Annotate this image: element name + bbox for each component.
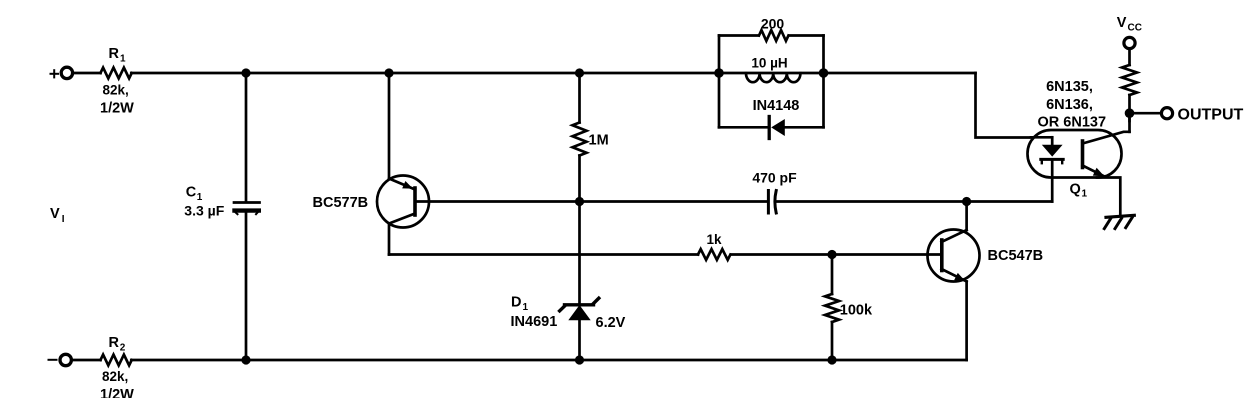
wire parallel network right branch — [822, 36, 825, 128]
svg-text:BC577B: BC577B — [313, 195, 369, 211]
svg-text:V: V — [1117, 15, 1127, 31]
wire IN4148 left — [719, 126, 768, 129]
svg-text:IN4148: IN4148 — [753, 98, 800, 114]
optocoupler body 6N135 — [1028, 130, 1122, 178]
label VCC — [1117, 15, 1142, 33]
wire BC577B base to node — [417, 200, 580, 203]
terminal OUTPUT — [1161, 108, 1172, 119]
svg-text:1k: 1k — [706, 232, 722, 247]
wire output node to terminal — [1130, 112, 1162, 115]
wire node to D1 — [578, 202, 581, 304]
ground — [1104, 215, 1134, 228]
svg-text:1/2W: 1/2W — [100, 101, 134, 117]
node 1M base 470pF — [575, 197, 584, 206]
transistor BC547B — [928, 230, 980, 282]
svg-text:CC: CC — [1128, 23, 1142, 34]
wire BC547B emitter to bottom rail — [965, 282, 968, 361]
wire node to BC547B base — [832, 253, 940, 256]
wire node to opto LED cathode — [967, 200, 1053, 203]
node parallel network right — [819, 68, 829, 78]
label C1 — [186, 185, 203, 203]
opto phototransistor Q1 — [1083, 132, 1130, 177]
node 470pF BC547B collector — [962, 197, 971, 206]
terminal + input — [51, 67, 73, 78]
wire bottom rail — [131, 359, 966, 362]
svg-text:1/2W: 1/2W — [100, 387, 134, 398]
wire BC577B collector to 1k — [389, 253, 698, 256]
wire 100k bottom — [831, 322, 834, 360]
svg-text:6.2V: 6.2V — [596, 315, 626, 331]
wire D1 to bottom rail — [578, 320, 581, 361]
resistor R2 — [101, 355, 132, 366]
node 100k bottom rail — [827, 355, 836, 364]
svg-text:1M: 1M — [589, 133, 609, 149]
wire opto emitter to ground — [1097, 178, 1120, 216]
svg-text:82k,: 82k, — [102, 369, 128, 384]
svg-text:1: 1 — [523, 302, 529, 313]
label R2 value 82k 1/2W — [100, 369, 134, 398]
resistor 200 — [759, 30, 788, 41]
svg-text:82k,: 82k, — [103, 83, 129, 98]
svg-text:6N136,: 6N136, — [1046, 97, 1093, 113]
wire 470pF to node — [776, 200, 967, 203]
wire 200 left — [719, 34, 759, 37]
wire 1M top — [578, 73, 581, 123]
wire - terminal to R2 — [71, 359, 100, 362]
wire parallel network left branch — [718, 36, 721, 128]
node output — [1125, 108, 1135, 118]
wire 470pF from node — [580, 200, 768, 203]
node BC577B emitter top — [384, 68, 393, 77]
terminal - input — [49, 354, 72, 365]
wire BC577B collector down — [388, 224, 391, 255]
svg-text:V: V — [50, 206, 60, 222]
svg-text:OUTPUT: OUTPUT — [1178, 106, 1244, 123]
resistor 1k — [698, 249, 730, 260]
wire 1k to node — [731, 253, 832, 256]
node 1M top — [575, 68, 584, 77]
svg-text:BC547B: BC547B — [988, 248, 1044, 264]
wire BC547B collector up — [965, 202, 968, 231]
diode IN4148 — [769, 117, 785, 139]
wire VCC to resistor — [1128, 49, 1131, 66]
wire top rail to opto anode — [976, 73, 1032, 138]
inductor 10uH — [746, 73, 800, 82]
svg-text:1: 1 — [120, 54, 126, 65]
resistor 100k — [825, 294, 839, 322]
resistor R1 — [101, 68, 132, 79]
svg-text:1: 1 — [197, 192, 203, 203]
label R2 — [109, 335, 126, 353]
label 6N135 6N136 OR 6N137 — [1038, 79, 1107, 131]
svg-text:I: I — [62, 214, 65, 225]
wire IN4148 right — [785, 126, 824, 129]
node 1k 100k base — [827, 250, 836, 259]
node D1 bottom — [575, 355, 584, 364]
svg-text:200: 200 — [761, 15, 785, 31]
svg-text:6N135,: 6N135, — [1046, 79, 1093, 95]
svg-text:R: R — [109, 46, 120, 62]
wire + terminal to R1 — [73, 72, 101, 75]
wire top rail R1 to opto corner — [131, 72, 975, 75]
wire resistor to output node — [1128, 95, 1131, 121]
svg-text:3.3 µF: 3.3 µF — [184, 203, 224, 219]
wire C1 top branch — [245, 73, 248, 201]
label R1 — [109, 46, 127, 64]
resistor VCC pullup — [1122, 65, 1137, 95]
terminal VCC — [1124, 37, 1135, 48]
capacitor C1 — [234, 203, 260, 215]
label R1 value 82k 1/2W — [100, 83, 134, 117]
node parallel network left — [714, 68, 724, 78]
svg-text:2: 2 — [120, 342, 126, 353]
svg-text:Q: Q — [1070, 181, 1081, 197]
svg-text:1: 1 — [1082, 189, 1088, 200]
node C1 top — [241, 68, 250, 77]
label VI — [50, 206, 65, 225]
svg-text:OR 6N137: OR 6N137 — [1038, 115, 1107, 131]
capacitor 470pF — [768, 191, 776, 214]
label D1 — [511, 295, 529, 313]
svg-text:10 µH: 10 µH — [751, 55, 787, 70]
wire 200 right — [789, 34, 824, 37]
label Q1 — [1070, 181, 1088, 199]
opto LED — [1031, 137, 1063, 201]
svg-text:D: D — [511, 295, 521, 311]
wire C1 bottom branch — [245, 213, 248, 360]
wire 1M bottom — [578, 156, 581, 202]
wire BC577B emitter to top rail — [388, 73, 391, 179]
svg-text:IN4691: IN4691 — [511, 314, 558, 330]
svg-text:R: R — [109, 335, 120, 351]
svg-text:C: C — [186, 185, 197, 201]
resistor 1M — [573, 123, 587, 156]
svg-text:470 pF: 470 pF — [752, 169, 797, 185]
wire opto collector to output node — [1128, 113, 1131, 132]
node C1 bottom — [241, 355, 250, 364]
transistor BC577B — [377, 176, 429, 228]
zener diode D1 — [560, 298, 599, 320]
wire 100k top — [831, 255, 834, 295]
svg-text:100k: 100k — [840, 302, 873, 318]
